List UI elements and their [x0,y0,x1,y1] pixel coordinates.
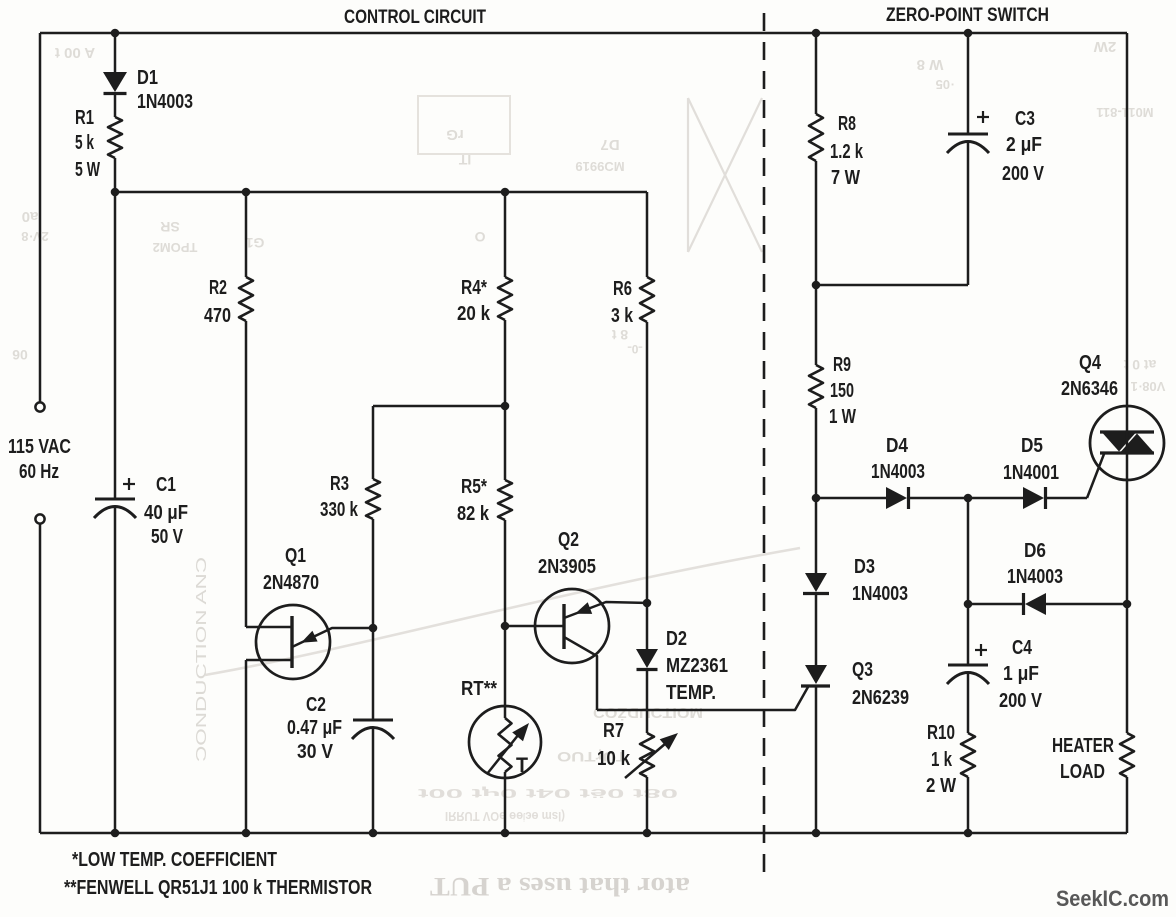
svg-text:1N4003: 1N4003 [1007,566,1063,588]
svg-text:M011-811: M011-811 [1096,105,1153,120]
resistor R3 [366,479,380,519]
svg-text:G1: G1 [245,235,264,251]
wire C2 lower [372,729,375,833]
node junction R4/R5 jog [501,402,510,411]
svg-text:V08·1: V08·1 [1131,379,1166,394]
transistor Q2 bar [562,604,565,649]
wire R5-Q2base [504,520,507,626]
wire D2-R7 [646,670,649,733]
svg-text:10 k: 10 k [597,748,631,770]
svg-text:*LOW TEMP. COEFFICIENT: *LOW TEMP. COEFFICIENT [72,849,277,871]
svg-text:60 Hz: 60 Hz [19,461,59,483]
wire D1 branch top [114,33,117,72]
wire R1-junction [114,158,117,192]
svg-text:MƆ9919: MƆ9919 [575,159,624,174]
svg-text:LOAD: LOAD [1060,761,1105,783]
wire Q2 base lead [505,625,564,628]
triac Q4 top bar [1100,430,1154,433]
svg-text:TEMP.: TEMP. [666,682,716,704]
svg-text:SR: SR [160,219,179,235]
svg-text:2V·8: 2V·8 [21,229,48,244]
wire R6-D2 [646,322,649,649]
svg-text:30 V: 30 V [297,741,334,763]
svg-text:1N4003: 1N4003 [852,583,908,605]
svg-text:D3: D3 [854,556,875,578]
svg-text:T: T [516,754,528,777]
wire C3 lower [967,143,970,285]
svg-text:˗0˗: ˗0˗ [628,342,643,356]
wire C3 upper [967,33,970,134]
wire R3 upper [372,406,375,479]
thyristor Q3 [805,665,827,684]
triac Q4 triangle 1 [1103,434,1135,452]
wire R4 upper [504,192,507,277]
node junction R3/C2/E [369,624,378,633]
svg-text:200 V: 200 V [1002,163,1045,185]
svg-text:at 0 t: at 0 t [1123,357,1156,373]
svg-text:06: 06 [12,347,28,363]
svg-text:a0: a0 [22,208,39,225]
wire left lead upper [39,33,42,402]
svg-text:470: 470 [204,305,231,327]
svg-text:R1: R1 [75,107,94,129]
wire right vertical lower [1126,777,1129,833]
node junction R8 top [812,29,821,38]
wire top rail [40,32,1127,35]
node junction R1 bottom [111,188,120,197]
node junction R10 bottom [964,829,973,838]
wire Q1 emitter [292,628,373,647]
triac Q4 bottom bar [1100,451,1154,454]
svg-text:D7: D7 [600,136,619,153]
svg-text:HEATER: HEATER [1052,735,1114,757]
wire R3 jog [373,405,505,408]
transistor Q2 circle [535,589,609,663]
svg-text:SeekIC.com: SeekIC.com [1056,886,1169,911]
diode D6 [1025,593,1046,615]
svg-text:1N4001: 1N4001 [1003,462,1059,484]
wire C1 upper [114,192,117,499]
svg-text:rG: rG [446,126,464,143]
svg-text:40 μF: 40 μF [144,502,188,524]
node junction R2 top [242,188,251,197]
resistor R2 [239,277,253,321]
wire D5-Q4gate [1046,497,1087,500]
node junction R4 top [501,188,510,197]
resistor R5 [498,480,512,520]
svg-text:Q4: Q4 [1079,352,1102,374]
svg-text:82 k: 82 k [457,503,490,525]
resistor R1 [108,117,122,158]
resistor R6 [640,277,654,322]
wire C4 upper [967,498,970,665]
wire R3-junction [372,519,375,628]
svg-text:R5*: R5* [461,476,487,498]
capacitor C1 [95,498,135,501]
svg-text:A 00 t: A 00 t [55,44,95,61]
node junction gate rail [812,494,821,503]
svg-text:O: O [474,229,485,245]
svg-text:D1: D1 [137,67,158,89]
svg-text:0.47 μF: 0.47 μF [287,717,342,739]
svg-text:150: 150 [830,380,854,402]
svg-text:ZERO-POINT SWITCH: ZERO-POINT SWITCH [886,4,1049,26]
capacitor C3 [948,133,988,136]
svg-text:R2: R2 [209,277,227,299]
triac Q4 triangle 2 [1121,434,1153,452]
svg-text:50 V: 50 V [151,526,184,548]
diode D5 [1023,487,1044,509]
wire C1 lower [114,508,117,833]
svg-text:D6: D6 [1024,540,1046,562]
resistor R10 [961,733,975,777]
wire RT lower [504,772,507,833]
wire bottom rail [40,832,1127,835]
svg-text:8 t: 8 t [611,327,628,343]
wire D1-R1 [114,95,117,117]
node junction D4/C4 [964,494,973,503]
wire R8 upper [815,33,818,114]
svg-text:2W: 2W [1093,38,1116,55]
wire D3-Q3 [815,594,818,665]
wire D6 right [1046,603,1127,606]
node junction C3 top [964,29,973,38]
wire R2 upper [245,192,248,277]
wire D4-D5 [909,497,1023,500]
node junction Q2 base [501,622,510,631]
divider dashed line [763,13,766,880]
svg-text:330 k: 330 k [320,499,359,521]
svg-text:2N6239: 2N6239 [852,687,909,709]
diode D4 [886,487,907,509]
svg-text:W 8: W 8 [917,56,944,73]
svg-text:D5: D5 [1021,435,1043,457]
svg-text:CONTROL CIRCUIT: CONTROL CIRCUIT [344,6,486,28]
wire C3 bottom link [816,284,968,287]
transistor Q1 emitter arrow [301,631,318,643]
svg-text:**FENWELL QR51J1 100 k THERMIS: **FENWELL QR51J1 100 k THERMISTOR [64,877,372,899]
wire gate line left [816,497,886,500]
svg-text:C1: C1 [156,474,176,496]
svg-text:3 k: 3 k [611,305,634,327]
wire R10 lower [967,777,970,833]
resistor R9 [809,365,823,408]
diode D3 [805,573,827,592]
svg-text:1.2 k: 1.2 k [830,141,864,163]
svg-text:2N4870: 2N4870 [263,572,319,594]
wire C2 upper [372,628,375,720]
node junction R2 bottom [242,829,251,838]
node junction top D1 [111,29,120,38]
wire mid rail [115,191,647,194]
label C3 plus [977,116,989,118]
svg-text:1 W: 1 W [829,406,856,428]
svg-text:C3: C3 [1015,108,1035,130]
terminal 115VAC top [35,402,44,411]
svg-text:·05: ·05 [936,77,955,92]
wire Q4 gate diag [1087,454,1104,498]
svg-text:115 VAC: 115 VAC [8,436,71,458]
svg-text:2 μF: 2 μF [1006,134,1042,156]
svg-text:ƆO‎NDUCTION ANƆ: ƆO‎NDUCTION ANƆ [193,557,210,762]
wire Q1 B2 lead [246,626,292,629]
node junction D6 right [1123,600,1132,609]
node junction C1 bottom [111,829,120,838]
wire Q2 collector [564,637,597,710]
transistor Q1 circle [256,605,330,679]
svg-text:R10: R10 [927,722,955,744]
svg-text:1N4003: 1N4003 [137,91,193,113]
svg-text:5 W: 5 W [75,159,100,181]
wire R6 upper [646,192,649,277]
wire D6 left [968,603,1025,606]
capacitor C2 [353,719,393,722]
wire R8-R9 [815,161,818,365]
svg-text:R8: R8 [838,113,856,135]
svg-text:Q2: Q2 [558,529,579,551]
resistor R8 [809,114,823,161]
wire Q2 emitter [564,602,647,618]
triac Q4 circle [1090,406,1164,480]
svg-text:08t 0ёt 04t 0ҷt 00t: 08t 0ёt 04t 0ҷt 00t [416,786,678,801]
wire RT upper [504,626,507,718]
transistor Q2 emitter arrow [575,602,592,614]
wire R7 lower [646,777,649,833]
wire Q1 B1 lead [246,659,292,662]
thermistor RT zigzag [499,718,512,772]
svg-text:7 W: 7 W [831,167,860,189]
wire R2-Q1 B2 [245,321,248,627]
transistor Q1 bar [290,616,293,668]
wire R9-D3 [815,408,818,573]
resistor HEATER LOAD [1120,733,1134,777]
svg-text:R9: R9 [833,354,851,376]
svg-text:20 k: 20 k [457,303,491,325]
potentiometer R7 arrow [625,738,672,778]
svg-text:R3: R3 [330,473,349,495]
diode D2 [636,649,658,668]
label C4 plus [975,649,987,651]
svg-text:1 k: 1 k [931,749,953,771]
svg-text:ator that uses a PUT: ator that uses a PUT [430,872,690,901]
svg-text:2 W: 2 W [926,775,956,797]
diode D1 [103,72,127,92]
svg-text:Q3: Q3 [852,659,873,681]
svg-text:R6: R6 [613,278,632,300]
svg-text:R4*: R4* [461,277,487,299]
svg-text:C4: C4 [1012,637,1033,659]
wire Q3 cathode [815,686,818,833]
svg-text:1N4003: 1N4003 [871,461,925,483]
node junction C4 top [964,600,973,609]
svg-text:C2: C2 [306,694,326,716]
svg-text:Q1: Q1 [285,545,306,567]
svg-text:R7: R7 [603,720,624,742]
node junction Q3 bottom [812,829,821,838]
label C1 plus [123,483,135,485]
node junction RT bottom [501,829,510,838]
node junction C2 bottom [369,829,378,838]
svg-text:RT**: RT** [461,678,497,700]
terminal 115VAC bottom [35,514,44,523]
wire right vertical upper [1126,33,1129,733]
thermistor RT circle [469,706,541,778]
wire gate run [597,687,808,710]
svg-text:200 V: 200 V [999,690,1043,712]
svg-text:TPO​M2: TPO​M2 [153,240,198,255]
wire R4-R5 [504,320,507,480]
resistor R7 [640,733,654,777]
svg-text:D4: D4 [886,435,909,457]
wire Q1 B1 down [245,660,248,833]
thermistor RT arrow [487,729,523,774]
resistor R4 [498,277,512,320]
svg-text:MZ2361: MZ2361 [666,655,728,677]
node junction R7 bottom [643,829,652,838]
svg-text:1 μF: 1 μF [1003,663,1039,685]
node junction Q2 emitter [643,599,652,608]
node junction R8 bottom [812,281,821,290]
svg-text:2N6346: 2N6346 [1061,378,1118,400]
svg-text:2N3905: 2N3905 [538,556,596,578]
capacitor C4 [948,664,988,667]
wire left lead lower [39,524,42,833]
wire C4 lower [967,674,970,733]
svg-text:5 k: 5 k [75,132,95,154]
svg-text:D2: D2 [666,628,687,650]
